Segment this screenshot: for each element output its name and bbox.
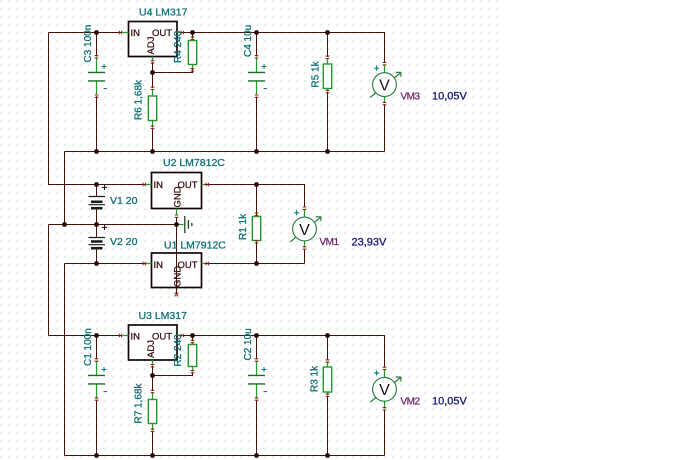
pin ticks middle section [143,183,145,187]
wire: U4 OUT net top rail [180,33,385,152]
wire: top section bottom rail [65,152,385,225]
svg-text:IN: IN [154,180,164,191]
op-amp U4 regulator box [123,22,181,62]
svg-text:C1 100n: C1 100n [83,328,94,366]
svg-text:U3 LM317: U3 LM317 [139,310,188,322]
wire: C3 branch [96,33,98,152]
pin ticks bottom section [119,334,121,338]
svg-text:ADJ: ADJ [146,340,157,358]
op-amp U2 regulator box [146,173,205,215]
wire: U3 OUT net [180,336,385,456]
svg-text:GND: GND [173,186,184,207]
wire: ground feed to U3 IN [49,335,123,337]
op-amp U1 regulator box [146,253,205,292]
svg-text:GND: GND [173,266,184,287]
svg-text:ADJ: ADJ [146,36,157,54]
capacitor C4 [248,58,267,96]
resistor R1 [252,215,260,242]
capacitor C1 [88,361,107,399]
svg-text:U4 LM317: U4 LM317 [139,7,188,19]
node: junction dots top section [94,30,99,35]
svg-text:V1 20: V1 20 [110,195,138,207]
svg-text:V2 20: V2 20 [110,236,138,248]
svg-text:C3 100n: C3 100n [83,25,94,63]
pin ticks top section [119,31,121,35]
wire: R1 branch [256,185,258,264]
wire: R4 branch to ADJ node [153,33,193,73]
wire: battery stack column [96,185,98,264]
wire: ADJ pin to node [152,62,154,73]
svg-text:VM3: VM3 [401,92,421,103]
wire: U2 GND pin down [176,218,178,225]
node: junction dots bottom section [94,333,99,338]
wire: R2 branch to ADJ node [153,336,193,376]
wire: C1 branch [96,336,98,456]
svg-text:10,05V: 10,05V [432,396,468,408]
battery V1 [89,185,108,208]
resistor R4 [188,38,196,70]
op-amp U3 regulator box [123,325,181,365]
ground [178,216,192,233]
wire: R5 branch [327,33,329,152]
wire: bottom rail [65,455,385,457]
wire: C2 branch [256,336,258,456]
svg-text:VM2: VM2 [401,397,421,408]
svg-text:R4 240: R4 240 [173,30,184,63]
svg-text:IN: IN [131,332,141,343]
capacitor C2 [248,361,267,399]
wire: R3 branch [327,336,329,456]
wire: ground rail middle [49,225,178,336]
voltmeter VM1 [290,210,321,242]
svg-text:VM1: VM1 [320,237,340,248]
wire: R7 branch [152,376,154,456]
svg-text:R1 1k: R1 1k [238,213,249,240]
wire: U3 ADJ pin to node [152,366,154,376]
resistor R6 [148,89,156,127]
wire: U1 OUT -12V net [202,249,305,264]
svg-text:R5 1k: R5 1k [311,60,322,87]
capacitor C3 [88,58,107,96]
svg-text:U1 LM7912C: U1 LM7912C [164,240,226,252]
svg-text:C2 10u: C2 10u [243,328,254,360]
wire: R6 branch [152,73,154,152]
wire: C4 branch [256,33,258,152]
wire: +20V from top-left corner down to V1+ [49,33,146,185]
voltmeter VM2 [370,371,401,403]
wire: U2 OUT +12V net [202,185,305,208]
resistor R7 [148,392,156,430]
svg-text:IN: IN [154,260,164,271]
svg-text:R6 1,68k: R6 1,68k [134,79,145,120]
svg-text:R3 1k: R3 1k [310,365,321,392]
svg-text:23,93V: 23,93V [352,237,388,249]
svg-text:R2 240: R2 240 [173,334,184,367]
svg-text:IN: IN [131,28,141,39]
resistor R3 [323,362,331,396]
resistor R2 [188,342,196,372]
wire: -20V from V2 to U1 IN and down to bottom rail [65,264,146,456]
resistor R5 [323,58,331,92]
svg-text:R7 1,68k: R7 1,68k [134,382,145,423]
svg-text:U2 LM7812C: U2 LM7812C [163,157,225,169]
node: junction dots middle section [94,182,99,187]
battery V2 [89,225,108,248]
svg-text:C4 10u: C4 10u [243,25,254,57]
voltmeter VM3 [370,66,401,98]
wire: ground node through U1 to its GND pin [176,225,178,294]
svg-text:10,05V: 10,05V [432,91,468,103]
